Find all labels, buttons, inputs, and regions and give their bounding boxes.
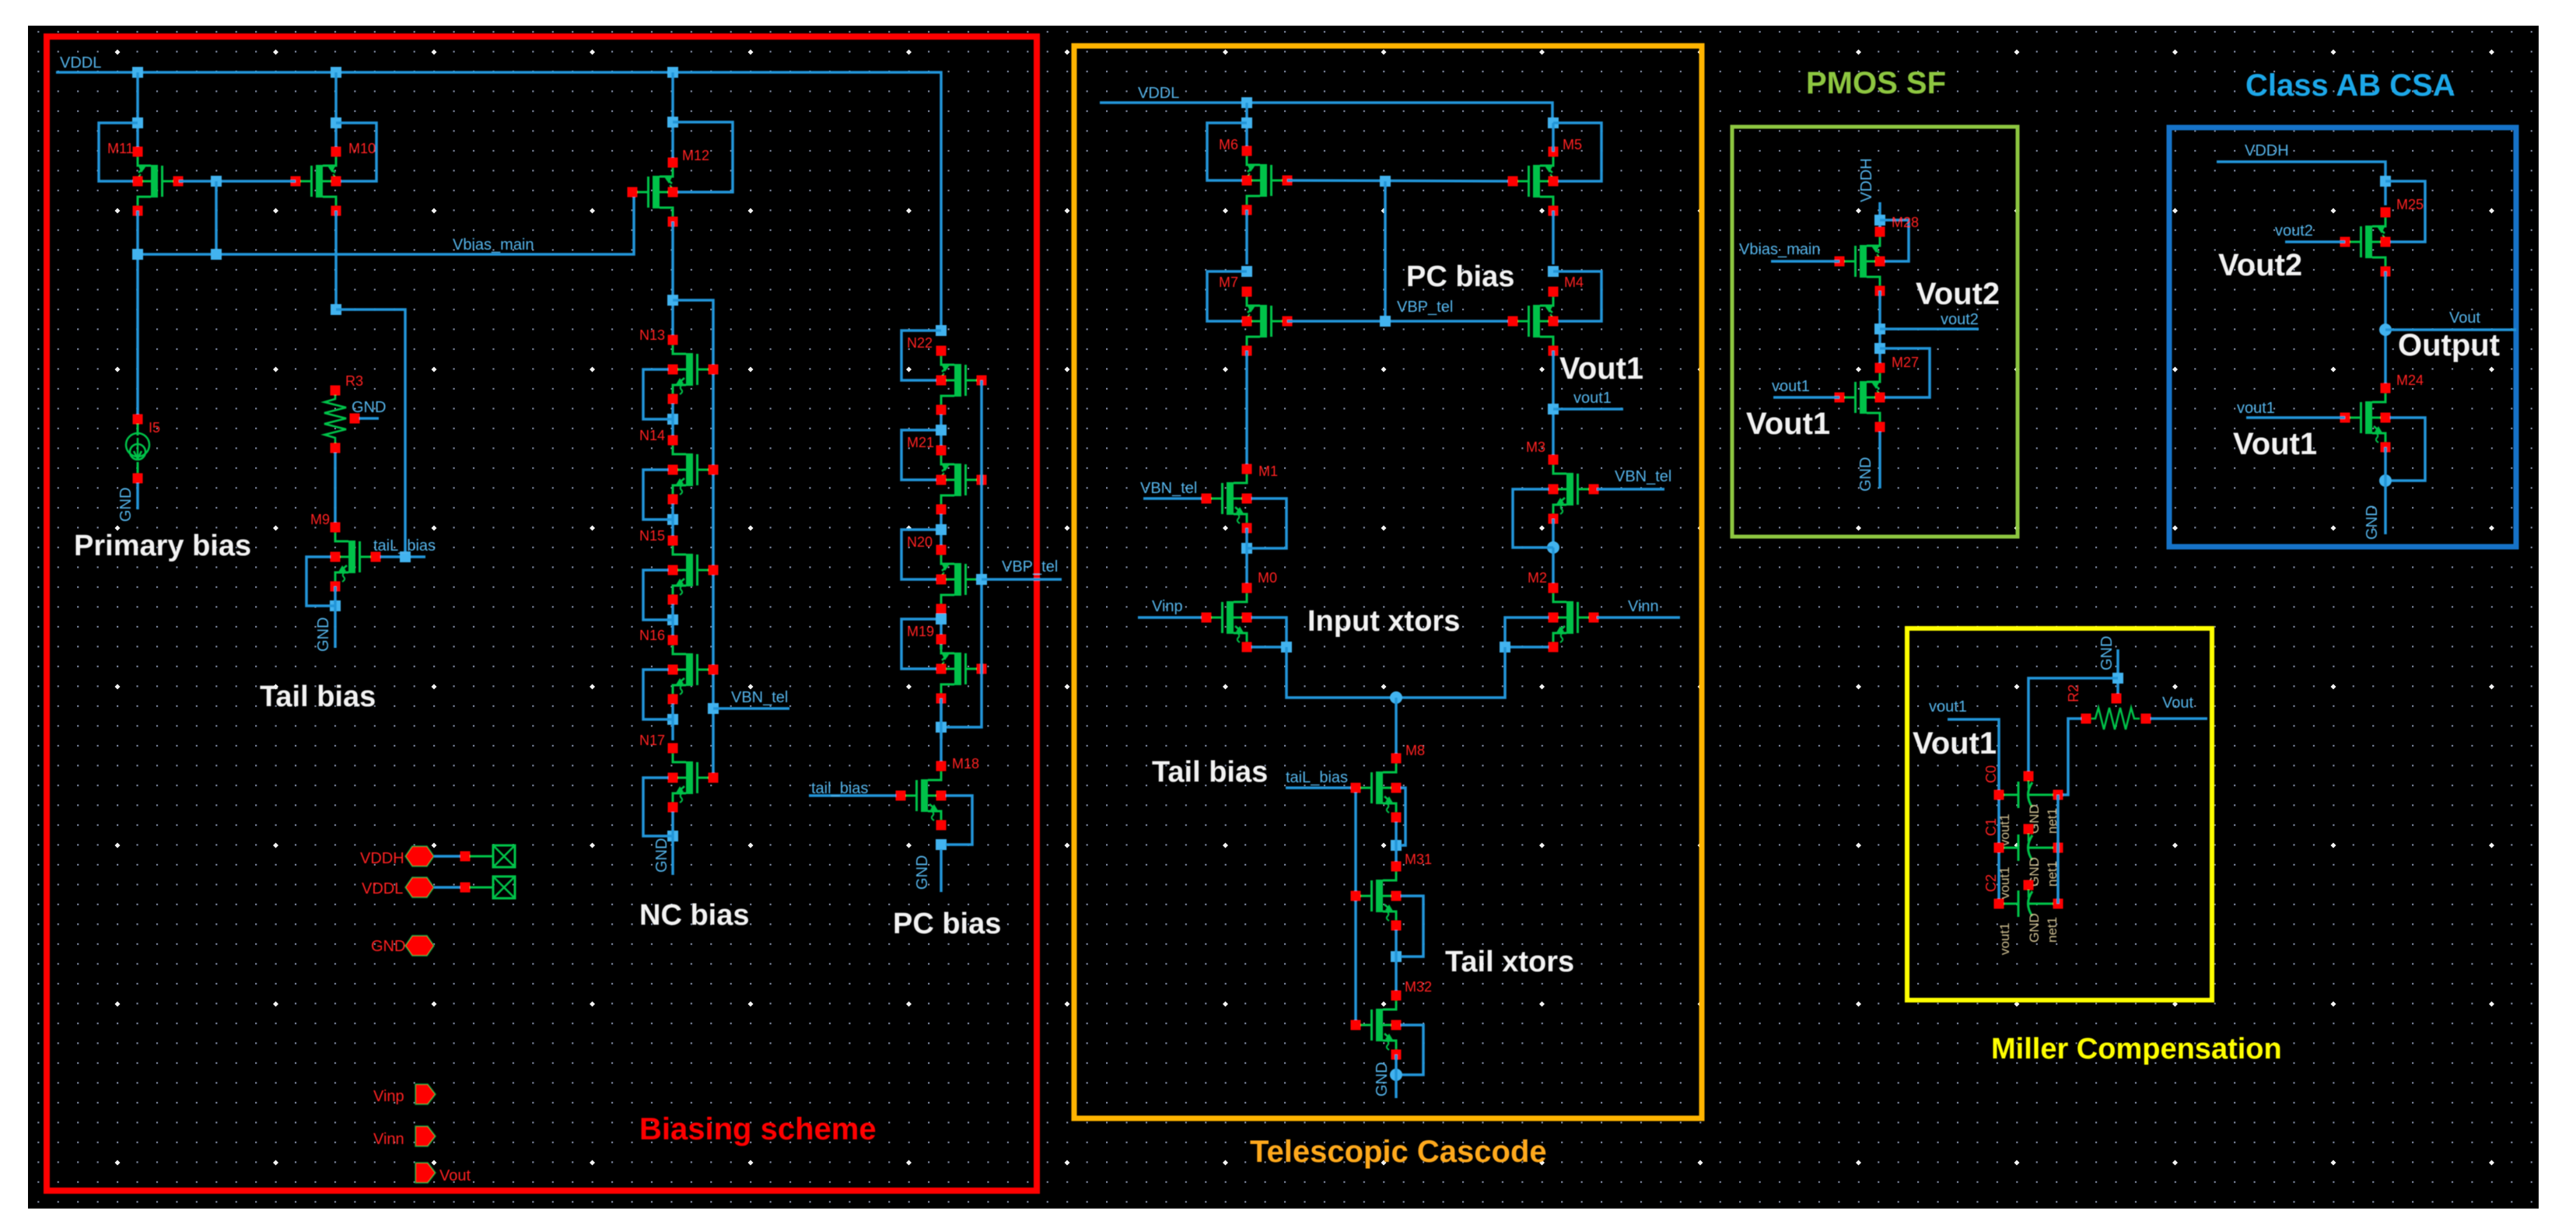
svg-text:VBP_tel: VBP_tel (1397, 299, 1453, 316)
junction N22 top (936, 325, 947, 336)
wire M11 source to I5 (136, 211, 139, 416)
junction M5 tie (1548, 117, 1559, 128)
wire VBN_tel right (1597, 488, 1664, 491)
junction VBP_tel tap (976, 574, 987, 585)
wire M9 gnd stub (334, 586, 337, 648)
current source I5 (133, 415, 143, 425)
wire VBP_tel stub (982, 578, 1062, 581)
junction M9 bulk (330, 600, 341, 611)
wire vout1 column mc (1948, 719, 1999, 904)
junction N17 bulk (667, 831, 678, 841)
svg-text:vout1: vout1 (1772, 378, 1810, 395)
svg-text:M25: M25 (2396, 197, 2424, 212)
wire M21 source down (940, 514, 943, 550)
svg-text:M21: M21 (907, 435, 934, 450)
wire N17 gnd stub (671, 841, 674, 875)
transistor M5 (1508, 147, 1559, 216)
wire M5 source (1552, 211, 1555, 264)
wire M25 bulk loop (2385, 181, 2425, 242)
PMOS SF box (1732, 127, 2018, 537)
svg-text:Vinp: Vinp (373, 1088, 404, 1105)
svg-text:N17: N17 (639, 733, 665, 748)
wire R2 left to net1 (2063, 719, 2081, 795)
svg-text:C0: C0 (1983, 765, 1999, 783)
junction VDDL-M11 (132, 67, 143, 78)
wire M1 to M0 (1245, 528, 1248, 588)
wire Vbias_main sf (1771, 260, 1839, 263)
wire vout1 ab (2246, 416, 2345, 419)
svg-text:VBN_tel: VBN_tel (731, 689, 788, 706)
wire VDDH sf (1878, 202, 1881, 232)
wire M8 bulk loop (1401, 788, 1405, 845)
junction M24 bulk dot (2379, 474, 2392, 487)
wire M27 gnd stub (1878, 432, 1881, 488)
svg-text:VBN_tel: VBN_tel (1615, 468, 1671, 485)
junction gate net (211, 176, 222, 187)
wire M28 source (1878, 291, 1881, 363)
svg-text:GND: GND (371, 938, 405, 955)
svg-text:net1: net1 (2045, 917, 2060, 943)
junction Vbias-1 (132, 249, 143, 260)
transistor M12 (628, 158, 678, 227)
junction Vout dot (2379, 324, 2392, 336)
capacitor C0 (2024, 771, 2034, 782)
svg-text:GND: GND (315, 617, 332, 652)
svg-text:Vout1: Vout1 (1559, 352, 1643, 386)
wire M7 source to M1 (1245, 351, 1248, 469)
wire M18 bulk loop (946, 796, 972, 845)
wire M11-M10 gate (179, 180, 296, 183)
svg-text:vout1: vout1 (1997, 922, 2012, 955)
wire M10 drain (334, 72, 338, 152)
wire M24 bulk loop (2390, 418, 2425, 481)
wire M3 bulk loop (1513, 489, 1553, 548)
wire M10 bulk loop (336, 123, 376, 181)
transistor N15 (668, 536, 719, 605)
svg-text:VDDH: VDDH (2245, 142, 2289, 159)
svg-text:Vinn: Vinn (1628, 598, 1659, 615)
svg-text:C1: C1 (1983, 818, 1999, 836)
capacitor C1 (2024, 824, 2034, 834)
junction M11 bulk tie (132, 117, 143, 128)
svg-text:vout1: vout1 (1997, 813, 2012, 846)
svg-text:GND: GND (653, 838, 670, 873)
wire Vout mc (2151, 717, 2207, 720)
wire M6-M5 gate (1287, 180, 1513, 181)
svg-text:Class AB CSA: Class AB CSA (2245, 68, 2455, 103)
svg-text:Biasing scheme: Biasing scheme (639, 1112, 877, 1146)
Telescopic Cascode box (1074, 46, 1702, 1118)
junction GND mc (2112, 673, 2123, 684)
transistor M0 (1202, 583, 1252, 652)
junction M25 tie (2380, 176, 2391, 187)
Biasing scheme box (47, 37, 1037, 1191)
svg-text:M28: M28 (1892, 215, 1919, 230)
wire M19 bulk loop (901, 619, 941, 669)
transistor N20 (936, 545, 987, 614)
transistor M9 (331, 523, 381, 592)
transistor M25 (2340, 208, 2391, 277)
wire M6 drain (1245, 103, 1248, 151)
wire M27 bulk loop (1880, 348, 1930, 397)
wire N17 source down (671, 812, 674, 841)
svg-text:GND: GND (1857, 457, 1874, 492)
svg-text:M5: M5 (1563, 137, 1582, 152)
wire N15 bulk loop (643, 570, 673, 620)
wire tail_bias tc (1286, 786, 1351, 789)
svg-text:M6: M6 (1219, 137, 1238, 152)
svg-text:Primary bias: Primary bias (74, 530, 251, 562)
wire M3 to M2 (1552, 548, 1555, 588)
wire Vinn (1597, 616, 1680, 619)
wire M5 drain stub (1552, 123, 1555, 152)
wire N14 bulk loop (643, 470, 673, 520)
svg-text:NC bias: NC bias (639, 899, 749, 932)
wire GND to caps (2028, 678, 2118, 771)
wire vout1 stub (1553, 408, 1623, 411)
svg-text:M18: M18 (952, 756, 979, 771)
svg-text:Vout2: Vout2 (1916, 277, 2000, 311)
svg-text:taiL_bias: taiL_bias (373, 537, 436, 555)
svg-text:taiL_bias: taiL_bias (1286, 769, 1348, 786)
junction PC diode tie (936, 722, 947, 733)
svg-text:VDDH: VDDH (360, 850, 404, 867)
svg-text:Tail bias: Tail bias (1152, 756, 1268, 789)
wire M0 bulk tie (1251, 617, 1286, 642)
transistor M8 (1351, 754, 1402, 823)
wire M32 source down (1395, 1055, 1398, 1075)
svg-text:Vout: Vout (2449, 310, 2480, 327)
junction VDDL-M12 (667, 67, 678, 78)
svg-text:C2: C2 (1983, 874, 1999, 892)
svg-text:Output: Output (2398, 328, 2500, 362)
junction tail node (1390, 691, 1402, 704)
wire vout1 sf (1773, 396, 1839, 399)
resistor R3 substrate pin (350, 414, 360, 424)
svg-text:Vinn: Vinn (373, 1131, 404, 1148)
svg-text:vout1: vout1 (2237, 400, 2275, 417)
transistor M6 (1242, 146, 1293, 215)
transistor M27 (1835, 363, 1885, 432)
wire M10 source (334, 211, 338, 310)
svg-text:R2: R2 (2066, 684, 2081, 702)
svg-text:Telescopic Cascode: Telescopic Cascode (1250, 1135, 1547, 1169)
svg-text:Vbias_main: Vbias_main (453, 236, 534, 254)
wire M9 bulk loop (306, 557, 335, 606)
junction N15 bulk (667, 614, 678, 625)
wire M12 source (671, 222, 674, 340)
transistor M10 (291, 147, 341, 216)
svg-text:Vout1: Vout1 (1913, 726, 1997, 761)
svg-text:Vout: Vout (2162, 694, 2193, 712)
wire net1 column mc (2056, 795, 2060, 904)
wire Vout ab (2385, 328, 2516, 331)
svg-text:Input xtors: Input xtors (1307, 605, 1460, 638)
svg-text:VDDL: VDDL (60, 54, 101, 72)
svg-text:M10: M10 (348, 141, 376, 156)
port Vout (415, 1163, 436, 1183)
svg-text:N14: N14 (639, 428, 665, 443)
wire N14 source down (671, 504, 674, 541)
wire VDDL rail (56, 72, 941, 331)
junction M32 bulk dot (1390, 1069, 1402, 1081)
junction M18 bulk (936, 839, 947, 850)
wire N16 bulk loop (643, 670, 673, 719)
junction M12 bulk tie (667, 117, 678, 128)
svg-text:tail_bias: tail_bias (811, 780, 868, 797)
svg-text:M3: M3 (1526, 439, 1545, 455)
junction M19 tie (936, 614, 947, 624)
wire N13 bulk loop (643, 369, 673, 419)
wire N22 bulk loop (901, 331, 941, 380)
transistor M24 (2340, 383, 2391, 453)
svg-text:M27: M27 (1892, 355, 1919, 370)
resistor R3 (331, 386, 341, 396)
wire GND drop mc (2116, 649, 2119, 694)
svg-text:N15: N15 (639, 528, 665, 544)
svg-text:M8: M8 (1405, 743, 1425, 758)
wire N13 source down (671, 404, 674, 440)
svg-text:Vout1: Vout1 (2233, 427, 2317, 461)
svg-text:M9: M9 (310, 512, 330, 527)
capacitor C2 (2024, 880, 2034, 890)
wire R3 bypass (336, 310, 405, 557)
junction M10 bulk tie (331, 117, 341, 128)
junction M0 source (1281, 642, 1292, 652)
svg-text:GND: GND (117, 488, 135, 522)
wire M19 source down (940, 703, 943, 739)
wire VBP_tel row (1287, 320, 1513, 323)
junction R3 top (331, 304, 341, 315)
junction M31 bulk (1391, 951, 1402, 962)
wire M0 source (1251, 645, 1282, 649)
svg-text:Vinp: Vinp (1152, 598, 1183, 615)
svg-text:vout1: vout1 (1929, 698, 1967, 715)
svg-text:vout2: vout2 (2275, 222, 2313, 240)
junction gate mid (1380, 176, 1391, 187)
wire M1 bulk loop (1247, 499, 1286, 548)
wire M6 source (1245, 210, 1248, 264)
svg-text:N20: N20 (907, 534, 933, 550)
svg-text:I5: I5 (149, 420, 160, 436)
wire vout2 ab (2285, 240, 2345, 243)
svg-text:PC bias: PC bias (1406, 261, 1514, 293)
transistor M21 (936, 446, 987, 515)
svg-text:Tail xtors: Tail xtors (1445, 946, 1574, 978)
svg-text:N22: N22 (907, 335, 933, 351)
svg-text:Vout2: Vout2 (2218, 248, 2302, 282)
junction M7 tie (1241, 266, 1252, 277)
svg-text:GND: GND (914, 855, 931, 890)
wire M19 to M18 (940, 698, 943, 766)
transistor M28 (1835, 227, 1885, 296)
wire M21 bulk loop (901, 430, 941, 480)
wire M24 gnd stub (2384, 481, 2387, 534)
wire M12 drain (671, 72, 674, 163)
wire vout2 stub sf (1880, 327, 1979, 331)
wire M6 bulk loop (1207, 123, 1247, 180)
wire M3 source to node (1552, 519, 1555, 548)
junction M2 source (1500, 642, 1510, 652)
svg-text:M12: M12 (682, 148, 709, 163)
wire M7 bulk loop (1207, 271, 1247, 321)
transistor M18 (896, 761, 947, 831)
wire gate mid drop (1384, 181, 1387, 321)
svg-text:GND: GND (352, 399, 386, 416)
junction VDDL-M10 (331, 67, 341, 78)
wire M2 source (1510, 645, 1549, 649)
transistor N14 (668, 436, 719, 505)
junction N16 bulk (667, 714, 678, 725)
junction N13 bulk (667, 414, 678, 425)
svg-text:M11: M11 (107, 141, 134, 156)
junction M28 tie (1874, 215, 1885, 226)
wire M31 source down (1395, 930, 1398, 995)
svg-text:VBP_tel: VBP_tel (1002, 558, 1058, 576)
wire M28 bulk loop (1880, 220, 1909, 261)
junction M1 bulk (1241, 543, 1252, 554)
svg-text:M19: M19 (907, 624, 934, 639)
wire N17 bulk loop (643, 778, 673, 836)
wire N20 bulk loop (901, 530, 941, 579)
junction M6 tie (1241, 117, 1252, 128)
transistor N22 (936, 346, 987, 415)
junction M8 bulk (1391, 840, 1402, 851)
wire N20 source down (940, 614, 943, 649)
svg-text:R3: R3 (345, 373, 363, 389)
svg-text:VDDL: VDDL (1138, 85, 1179, 102)
wire M0 tail drop (1286, 647, 1391, 698)
svg-text:N16: N16 (639, 628, 665, 643)
svg-text:M1: M1 (1258, 464, 1278, 479)
junction VDDL-M6 (1241, 97, 1252, 108)
wire tail_bias stub (380, 555, 425, 558)
wire M11 drain (136, 72, 139, 152)
wire M24 source (2384, 447, 2387, 481)
Class AB CSA box (2169, 128, 2516, 547)
wire tail_bias to M18 (809, 794, 896, 797)
junction tail_bias (400, 551, 411, 562)
svg-text:GND: GND (1374, 1062, 1391, 1097)
wire M4 bulk loop (1553, 271, 1601, 321)
junction Vbias-2 (211, 249, 222, 260)
wire PC gate bus (941, 380, 982, 727)
wire M25 source (2384, 271, 2387, 388)
junction VBP mid (1380, 316, 1391, 327)
svg-text:vout1: vout1 (1573, 390, 1612, 407)
transistor M7 (1242, 287, 1293, 356)
wire M12 bulk loop (673, 122, 733, 192)
wire VBN_tel left (1143, 497, 1206, 500)
svg-text:Vbias_main: Vbias_main (1739, 241, 1821, 258)
transistor N17 (668, 743, 719, 813)
wire R3 bottom to M9 (334, 453, 337, 523)
wire VDDH ab (2217, 162, 2385, 205)
wire M11 bulk loop (99, 123, 138, 181)
svg-text:GND: GND (2364, 506, 2381, 540)
transistor M3 (1549, 455, 1599, 524)
wire tail node down (1395, 698, 1398, 758)
svg-text:M2: M2 (1528, 570, 1547, 586)
junction NC chain top (667, 295, 678, 306)
transistor M31 (1351, 862, 1402, 931)
svg-text:PC bias: PC bias (893, 908, 1001, 940)
svg-text:VBN_tel: VBN_tel (1140, 480, 1197, 497)
wire M2 bulk tie (1505, 617, 1549, 642)
wire M4 source to M3 (1552, 351, 1555, 460)
transistor M11 (133, 147, 184, 216)
wire N16 source down (671, 704, 674, 740)
junction M3 bulk dot (1547, 541, 1559, 554)
svg-text:M0: M0 (1258, 570, 1277, 586)
transistor M19 (936, 635, 987, 704)
svg-text:vout1: vout1 (1997, 866, 2012, 899)
junction M27 tie (1874, 343, 1885, 354)
svg-text:M32: M32 (1405, 979, 1432, 995)
junction VBN_tel tap (708, 703, 719, 714)
wire M31 bulk loop (1401, 896, 1423, 957)
wire M2 tail drop (1401, 647, 1505, 698)
svg-text:N13: N13 (639, 327, 665, 343)
wire Vinp (1138, 616, 1206, 619)
junction vout1 (1548, 404, 1559, 415)
junction M4 tie (1548, 266, 1559, 277)
svg-text:VDDH: VDDH (1858, 158, 1875, 202)
wire VBN_tel stub (713, 707, 789, 710)
wire M18 gnd stub (940, 849, 943, 892)
wire M32 gnd stub (1395, 1075, 1398, 1098)
svg-text:GND: GND (2098, 636, 2116, 670)
transistor N13 (668, 335, 719, 404)
transistor N16 (668, 635, 719, 705)
svg-text:Tail bias: Tail bias (260, 680, 376, 713)
wire M5 bulk loop (1553, 123, 1601, 181)
svg-text:M7: M7 (1219, 275, 1238, 290)
svg-text:M4: M4 (1564, 275, 1584, 290)
junction vout2 sf (1874, 324, 1885, 334)
svg-text:M31: M31 (1405, 852, 1432, 867)
svg-text:Vout1: Vout1 (1746, 407, 1830, 441)
wire N22 source down (940, 415, 943, 450)
wire NC gate bus (673, 300, 713, 778)
transistor M4 (1508, 287, 1559, 356)
svg-text:Miller Compensation: Miller Compensation (1991, 1033, 2282, 1065)
wire M32 bulk loop (1401, 1025, 1423, 1075)
resistor R2 (2112, 694, 2122, 704)
wire N15 source down (671, 604, 674, 641)
junction N20 tie (936, 524, 947, 535)
junction N14 bulk (667, 514, 678, 525)
svg-text:VDDL: VDDL (362, 880, 403, 897)
wire M8 source down (1395, 822, 1398, 866)
wire VDDL tc (1100, 103, 1552, 124)
transistor M1 (1202, 464, 1252, 534)
svg-text:GND: GND (2027, 913, 2042, 943)
transistor M2 (1549, 583, 1599, 652)
svg-text:PMOS SF: PMOS SF (1806, 66, 1946, 100)
wire gate drop (215, 181, 218, 254)
wire I5 gnd stub (136, 483, 139, 509)
junction M21 tie (936, 425, 947, 436)
svg-text:M24: M24 (2396, 373, 2424, 388)
Miller Compensation box (1907, 628, 2212, 1000)
wire Vbias_main (138, 192, 634, 254)
transistor M32 (1351, 991, 1402, 1060)
wire tail gate bus (1354, 792, 1357, 1025)
svg-text:Vout: Vout (439, 1167, 471, 1184)
svg-text:vout2: vout2 (1941, 311, 1979, 328)
